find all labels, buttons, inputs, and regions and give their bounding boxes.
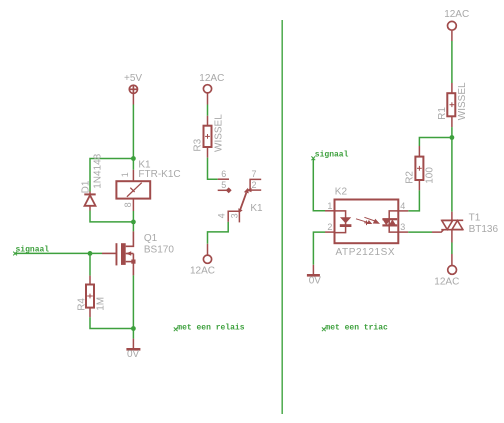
svg-text:5: 5: [221, 180, 226, 190]
svg-text:12AC: 12AC: [434, 276, 459, 287]
pin 12AC top circle (triac side): [448, 21, 457, 30]
wire signaal to gate: [15, 252, 102, 254]
svg-text:1: 1: [327, 201, 332, 211]
wire R4 to 0V rail: [90, 317, 133, 328]
wire Q1 source down: [132, 275, 134, 338]
svg-text:0V: 0V: [309, 275, 322, 286]
svg-text:1N4148: 1N4148: [93, 153, 104, 188]
svg-text:met een triac: met een triac: [325, 323, 388, 332]
wire R1 down to T1: [451, 127, 453, 212]
relay coil K1 body: [116, 181, 150, 198]
relay contact K1 pin 3: [238, 211, 240, 222]
arm arrowhead bottom: [238, 208, 242, 213]
wire K2 pin 2 to ground: [313, 232, 325, 265]
svg-text:WISSEL: WISSEL: [457, 82, 468, 120]
wire R2 to K2 pin 4: [408, 190, 419, 211]
svg-text:Q1: Q1: [144, 233, 158, 244]
K2 internal phototriac: [382, 211, 398, 232]
svg-text:R2: R2: [405, 171, 416, 184]
wire T1 to 12AC bottom: [451, 243, 453, 255]
relay contact K1 pin 2: [251, 189, 261, 191]
transistor Q1: [102, 231, 136, 275]
relay coil pin 8 stub: [132, 199, 134, 211]
ground 0V right bar: [307, 274, 320, 277]
svg-text:4: 4: [216, 213, 226, 218]
label tick signaal right: [311, 156, 315, 160]
ground 0V right stub: [312, 265, 314, 275]
svg-text:R1: R1: [437, 107, 448, 120]
pin 12AC top circle (relay side): [203, 85, 211, 93]
resistor R1: [447, 83, 455, 127]
svg-text:WISSEL: WISSEL: [214, 114, 225, 152]
svg-text:T1: T1: [469, 212, 481, 223]
relay contact arm: [240, 193, 247, 212]
relay contact K1 pin 4: [228, 211, 239, 222]
svg-text:12AC: 12AC: [444, 9, 469, 20]
wire junction to D1: [90, 159, 133, 192]
optocoupler K2 pin 2: [325, 231, 335, 233]
contact point pin 5: [226, 187, 232, 193]
junction node drain: [131, 220, 136, 225]
wire coil to node: [132, 211, 134, 222]
junction node top: [131, 156, 136, 161]
wire 12AC to R3: [207, 105, 209, 116]
relay contact K1 pin 5: [218, 189, 229, 191]
svg-text:1M: 1M: [96, 297, 107, 311]
wire R3 to contact pin 6: [208, 158, 218, 180]
junction node 0V rail: [131, 326, 136, 331]
wire junction to R2: [419, 138, 452, 147]
pin stub 12AC top triac: [451, 31, 453, 41]
supply symbol +5V circle: [129, 85, 137, 93]
diode D1: [84, 192, 95, 211]
optocoupler K2 pin 4: [398, 210, 408, 212]
svg-text:K1: K1: [250, 203, 263, 214]
resistor R2: [415, 146, 423, 190]
caption tick right: [322, 327, 326, 331]
wire D1 bottom to node: [90, 211, 133, 222]
svg-text:R3: R3: [192, 138, 203, 151]
svg-text:0V: 0V: [127, 349, 140, 360]
K2 internal LED: [335, 211, 352, 233]
svg-text:met een relais: met een relais: [177, 323, 244, 332]
pin stub 12AC bottom triac: [451, 254, 453, 265]
resistor R3: [204, 116, 212, 158]
ground 0V left bar: [126, 348, 140, 351]
relay coil K1 pin 1 stub: [132, 170, 134, 181]
triac T1 body: [441, 220, 463, 229]
optocoupler K2 body: [335, 200, 399, 244]
svg-text:R4: R4: [76, 298, 87, 311]
arm arrowhead top: [244, 188, 249, 194]
caption tick left: [174, 327, 178, 331]
svg-text:7: 7: [252, 169, 257, 179]
optocoupler K2 pin 1: [325, 210, 335, 212]
svg-text:1: 1: [120, 172, 130, 177]
svg-text:6: 6: [221, 169, 226, 179]
pin 12AC bottom circle (triac side): [448, 266, 457, 275]
divider line: [281, 20, 283, 414]
ground 0V left stub: [132, 339, 134, 349]
relay contact K1 pin 6: [218, 178, 229, 180]
resistor R4: [86, 276, 94, 318]
svg-text:100: 100: [425, 167, 436, 184]
svg-text:3: 3: [400, 222, 405, 232]
wire signaal to K2 pin 1: [313, 158, 325, 211]
triac T1 MT2 stub: [451, 212, 453, 221]
svg-text:BT136: BT136: [469, 224, 499, 235]
svg-text:12AC: 12AC: [190, 266, 215, 277]
svg-text:BS170: BS170: [144, 244, 174, 255]
svg-text:8: 8: [123, 202, 133, 207]
triac T1 MT1 stub: [451, 230, 453, 243]
wire +5V vertical: [132, 105, 134, 170]
svg-text:K2: K2: [335, 186, 348, 197]
svg-text:2: 2: [252, 180, 257, 190]
pin stub 12AC bottom relay: [207, 244, 209, 255]
pin stub 12AC top relay: [207, 93, 209, 104]
svg-text:signaal: signaal: [315, 151, 349, 160]
wire K2 pin 3 to T1 gate: [408, 231, 432, 233]
svg-text:D1: D1: [81, 180, 92, 193]
junction node R1/R2: [450, 135, 455, 140]
contact arrow pin 2: [246, 188, 251, 192]
svg-text:2: 2: [327, 222, 332, 232]
svg-text:FTR-K1C: FTR-K1C: [138, 169, 180, 180]
svg-text:+5V: +5V: [124, 73, 142, 84]
pin 12AC bottom circle (relay side): [203, 255, 211, 263]
wire node to R4: [89, 253, 91, 275]
label tick signaal left: [13, 252, 17, 256]
relay contact K1 pin 7: [250, 179, 261, 190]
svg-text:3: 3: [230, 213, 240, 218]
svg-text:ATP2121SX: ATP2121SX: [336, 247, 396, 258]
pin stub +5V: [132, 93, 134, 104]
wire node to Q1 drain: [132, 222, 134, 232]
optocoupler K2 pin 3: [398, 231, 408, 233]
wire 12AC to R1: [451, 41, 453, 83]
svg-text:12AC: 12AC: [199, 73, 224, 84]
junction node gate/R4: [88, 251, 93, 256]
svg-text:4: 4: [400, 201, 405, 211]
K2 light arrows: [356, 217, 379, 225]
wire contact to 12AC bottom: [208, 222, 229, 244]
triac T1 gate pin: [432, 230, 444, 232]
